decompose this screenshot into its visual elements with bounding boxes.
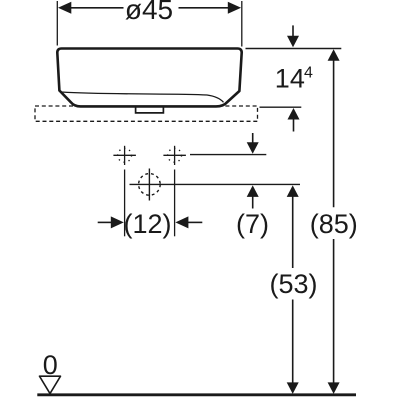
dimension 14/4 up arrow stem	[293, 119, 295, 132]
dimension 12 left leader line	[98, 221, 112, 223]
countertop dashed rectangle	[35, 106, 258, 121]
svg-text:(12): (12)	[123, 209, 171, 239]
dimension 7 up arrow stem	[252, 196, 254, 208]
basin top level line	[246, 48, 342, 50]
svg-text:0: 0	[43, 350, 58, 380]
dimension line right segment diameter 45	[179, 7, 230, 9]
dimension 14/4 down arrow stem	[292, 25, 294, 37]
svg-text:4: 4	[304, 65, 313, 82]
dimension 12 right leader line	[188, 221, 203, 223]
dimension 53 lower stem	[292, 300, 294, 385]
arrowhead right diameter 45	[228, 2, 241, 14]
dimension 12 left arrowhead	[111, 216, 124, 228]
tap hole right cross vertical arm	[174, 146, 176, 165]
dimension 14/4 down arrowhead	[287, 36, 299, 48]
svg-text:14: 14	[275, 64, 305, 94]
dimension 7 down arrow stem	[252, 133, 254, 143]
arrowhead left diameter 45	[58, 2, 71, 14]
dimension 53 up arrowhead	[287, 185, 299, 197]
drain dashed circle	[139, 174, 161, 196]
svg-text:(7): (7)	[236, 209, 269, 239]
tap hole right dotted circle	[168, 148, 182, 162]
datum triangle	[40, 376, 61, 393]
svg-text:(85): (85)	[310, 209, 358, 239]
dimension 53 down arrowhead	[287, 382, 299, 394]
dimension 12 extension line right	[174, 170, 176, 237]
dimension 85 upper stem	[333, 60, 335, 207]
dimension 7 up arrowhead	[247, 185, 259, 197]
drain stub outline	[136, 108, 164, 113]
dimension 12 extension line left	[124, 170, 126, 237]
dimension 53 upper stem	[292, 196, 294, 268]
svg-text:(53): (53)	[269, 269, 317, 299]
dimension 85 lower stem	[333, 239, 335, 384]
washbasin outline	[57, 49, 241, 107]
svg-text:ø45: ø45	[125, 0, 173, 25]
extension line right of dimension diameter 45	[241, 1, 243, 47]
tap hole left cross horizontal arm	[113, 154, 135, 156]
dimension 85 down arrowhead	[328, 382, 340, 394]
extension line left of dimension diameter 45	[56, 1, 58, 46]
floor reference line	[37, 393, 356, 396]
tap hole left cross vertical arm	[124, 146, 126, 165]
tap hole left dotted circle	[118, 148, 132, 162]
dimension 85 up arrowhead	[328, 49, 340, 61]
dimension 14/4 up arrowhead	[288, 108, 300, 120]
drain cross vertical arm	[148, 169, 150, 201]
drain level line with cross horizontal arm	[130, 183, 301, 185]
tap hole level line	[190, 154, 266, 156]
dimension 7 down arrowhead	[247, 142, 259, 154]
dimension line left segment diameter 45	[71, 7, 124, 9]
tap hole right cross horizontal arm	[163, 154, 186, 156]
washbasin inner rim line	[62, 92, 224, 102]
dimension 12 right arrowhead	[175, 216, 188, 228]
countertop top level line	[260, 106, 302, 108]
